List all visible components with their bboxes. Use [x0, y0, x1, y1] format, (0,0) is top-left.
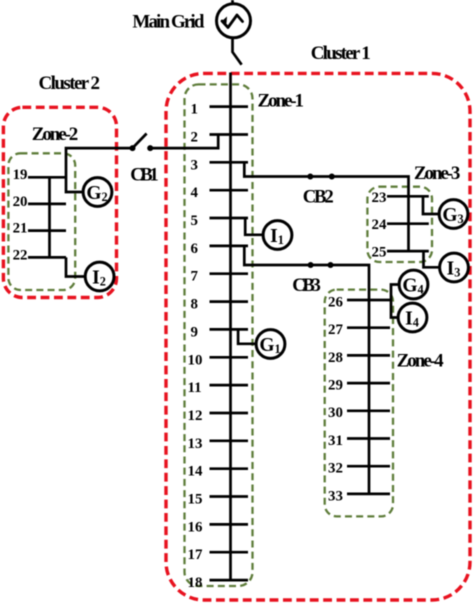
svg-text:CB3: CB3 [292, 275, 321, 296]
svg-text:Zone-2: Zone-2 [32, 124, 79, 145]
svg-text:24: 24 [372, 217, 387, 233]
svg-text:13: 13 [188, 436, 203, 452]
svg-text:10: 10 [188, 352, 203, 368]
svg-text:11: 11 [188, 380, 202, 396]
svg-text:Zone-3: Zone-3 [414, 163, 461, 184]
svg-text:29: 29 [328, 378, 343, 394]
svg-text:3: 3 [191, 157, 198, 173]
svg-text:27: 27 [328, 322, 343, 338]
svg-text:23: 23 [372, 190, 387, 206]
svg-text:18: 18 [188, 575, 203, 591]
svg-text:2: 2 [191, 130, 198, 146]
svg-text:26: 26 [328, 294, 343, 310]
svg-text:Cluster 2: Cluster 2 [39, 73, 101, 94]
svg-text:Zone-4: Zone-4 [397, 350, 445, 371]
svg-text:15: 15 [188, 492, 203, 508]
svg-text:31: 31 [328, 433, 343, 449]
svg-text:17: 17 [188, 547, 203, 563]
svg-text:28: 28 [328, 350, 343, 366]
svg-text:32: 32 [328, 461, 343, 477]
svg-text:Zone-1: Zone-1 [258, 91, 305, 112]
svg-text:16: 16 [188, 519, 203, 535]
svg-text:12: 12 [188, 408, 203, 424]
svg-text:CB1: CB1 [130, 165, 159, 186]
svg-text:9: 9 [191, 324, 198, 340]
svg-text:7: 7 [191, 269, 199, 285]
svg-text:20: 20 [13, 194, 28, 210]
svg-text:Cluster 1: Cluster 1 [311, 43, 371, 64]
svg-text:4: 4 [191, 185, 199, 201]
svg-text:CB2: CB2 [303, 186, 334, 207]
svg-text:8: 8 [191, 297, 198, 313]
svg-text:19: 19 [13, 167, 28, 183]
svg-text:25: 25 [372, 245, 387, 261]
svg-text:Main Grid: Main Grid [132, 12, 204, 33]
svg-text:30: 30 [328, 405, 343, 421]
svg-text:5: 5 [191, 213, 198, 229]
svg-text:1: 1 [191, 102, 198, 118]
svg-text:14: 14 [188, 464, 203, 480]
svg-text:21: 21 [13, 221, 28, 237]
svg-text:6: 6 [191, 241, 199, 257]
svg-text:33: 33 [328, 488, 343, 504]
svg-text:22: 22 [13, 247, 28, 263]
